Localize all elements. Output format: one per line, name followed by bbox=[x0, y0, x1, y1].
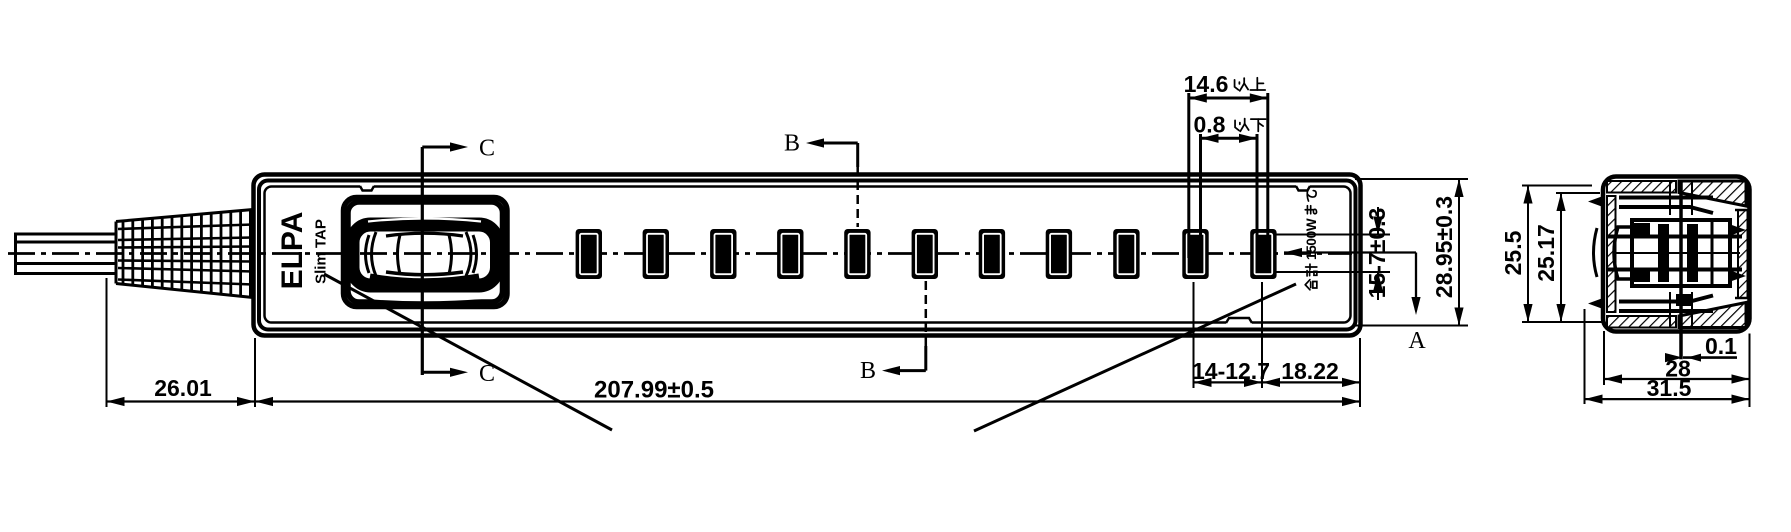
svg-text:B: B bbox=[784, 131, 800, 157]
svg-text:26.01: 26.01 bbox=[154, 375, 212, 401]
svg-text:14.6: 14.6 bbox=[1184, 71, 1229, 97]
svg-text:ELPA: ELPA bbox=[276, 212, 309, 290]
svg-text:25.5: 25.5 bbox=[1500, 230, 1526, 275]
svg-text:207.99±0.5: 207.99±0.5 bbox=[594, 377, 714, 404]
svg-text:31.5: 31.5 bbox=[1647, 375, 1692, 401]
svg-text:25.17: 25.17 bbox=[1533, 224, 1559, 282]
svg-text:18.22: 18.22 bbox=[1281, 358, 1339, 384]
svg-text:0.1: 0.1 bbox=[1705, 333, 1737, 359]
svg-text:0.8: 0.8 bbox=[1194, 112, 1226, 138]
svg-text:A: A bbox=[1408, 328, 1426, 354]
svg-text:28.95±0.3: 28.95±0.3 bbox=[1431, 196, 1457, 298]
svg-text:1500W: 1500W bbox=[1304, 218, 1319, 260]
svg-text:C: C bbox=[479, 136, 495, 162]
svg-text:14-12.7: 14-12.7 bbox=[1192, 358, 1270, 384]
svg-text:B: B bbox=[860, 358, 876, 384]
